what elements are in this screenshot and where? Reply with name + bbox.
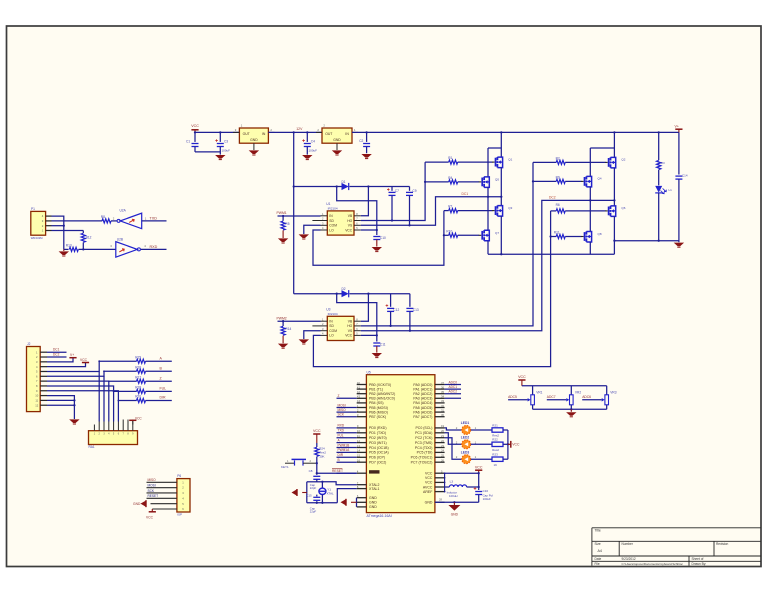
inverter U2B	[116, 242, 138, 258]
inductor L3	[445, 486, 450, 488]
power symbol VCC	[518, 379, 525, 381]
resistor R6	[551, 210, 557, 212]
svg-text:VR1: VR1	[536, 390, 542, 394]
power symbol VCC	[152, 508, 177, 510]
svg-text:R17: R17	[135, 375, 141, 379]
svg-text:C2: C2	[359, 139, 363, 143]
wire HO	[361, 162, 533, 326]
wire	[47, 380, 137, 382]
svg-text:9/23/2012: 9/23/2012	[622, 557, 636, 561]
wire	[350, 293, 410, 295]
svg-text:HO: HO	[347, 219, 352, 223]
wire	[445, 397, 461, 399]
svg-text:XTAL1: XTAL1	[369, 487, 379, 491]
svg-text:R15: R15	[135, 355, 141, 359]
svg-text:41: 41	[357, 385, 361, 389]
svg-text:11: 11	[35, 399, 38, 403]
wire	[278, 320, 321, 322]
svg-text:PC0 (SCL): PC0 (SCL)	[415, 426, 432, 430]
svg-text:PA1 (ADC1): PA1 (ADC1)	[413, 387, 432, 391]
svg-text:PA0 (ADC0): PA0 (ADC0)	[413, 383, 432, 387]
svg-text:24: 24	[441, 449, 445, 453]
diode D1	[293, 185, 295, 187]
gate driver U3 IR2104	[327, 316, 354, 340]
resistor R5	[282, 216, 284, 221]
svg-text:R18: R18	[135, 386, 141, 390]
svg-text:PD0 (RXD): PD0 (RXD)	[369, 426, 387, 430]
svg-text:12: 12	[35, 403, 38, 407]
svg-text:PB1 (T1): PB1 (T1)	[369, 387, 383, 391]
ground	[299, 339, 309, 343]
svg-text:PC3 (TMS): PC3 (TMS)	[415, 441, 433, 445]
svg-text:PWM1: PWM1	[277, 211, 287, 215]
wire VS / DC1	[361, 197, 502, 226]
connector J2	[27, 347, 41, 412]
svg-text:PA2 (ADC2): PA2 (ADC2)	[413, 392, 432, 396]
power symbol VCC	[191, 129, 198, 131]
wire left bridge column B	[487, 148, 489, 176]
wire	[111, 220, 117, 222]
capacitor C12	[390, 294, 392, 307]
ground arrow	[351, 501, 357, 503]
svg-text:DIR: DIR	[338, 453, 344, 457]
wire MCU gnd bracket	[356, 498, 358, 507]
ground	[361, 154, 371, 158]
resistor R13	[64, 248, 69, 250]
wire	[47, 361, 137, 371]
svg-text:LED2: LED2	[461, 436, 470, 440]
svg-text:U1: U1	[326, 202, 330, 206]
svg-text:SCK: SCK	[148, 489, 155, 493]
svg-text:PD7 (OC2): PD7 (OC2)	[369, 461, 386, 465]
svg-text:40: 40	[357, 381, 361, 385]
wire bracket	[488, 147, 501, 149]
svg-text:C9: C9	[412, 189, 416, 193]
net label ADC2	[445, 393, 461, 395]
svg-text:C7: C7	[395, 189, 399, 193]
svg-text:PB2 (AIN0/INT2): PB2 (AIN0/INT2)	[369, 392, 395, 396]
svg-text:15: 15	[357, 454, 361, 458]
net label MISO	[337, 411, 357, 413]
crystal Y1	[321, 482, 323, 488]
resistor R24 10K	[316, 443, 318, 447]
wire	[146, 370, 172, 372]
svg-text:R13: R13	[66, 244, 72, 248]
svg-text:Z: Z	[338, 394, 340, 398]
svg-text:10K: 10K	[319, 454, 324, 458]
svg-text:IN: IN	[262, 132, 266, 136]
svg-text:21: 21	[441, 434, 445, 438]
svg-text:R11: R11	[554, 231, 560, 235]
wire	[52, 216, 64, 249]
svg-text:VCC: VCC	[191, 124, 199, 128]
svg-text:C1: C1	[186, 140, 190, 144]
resistor R20	[137, 398, 146, 402]
svg-text:PA3 (ADC3): PA3 (ADC3)	[413, 397, 432, 401]
wire	[445, 428, 462, 430]
svg-text:C4: C4	[311, 140, 315, 144]
wire left bridge column A	[500, 131, 502, 133]
resistor R11	[549, 235, 551, 237]
ground	[278, 238, 288, 242]
ground	[63, 249, 65, 251]
wire	[532, 405, 534, 410]
svg-text:KEY1: KEY1	[281, 465, 289, 469]
resistor R23	[492, 457, 503, 461]
svg-text:VR2: VR2	[575, 390, 581, 394]
resistor R16	[137, 369, 146, 373]
wire VS / DC2	[361, 200, 615, 330]
svg-text:Title: Title	[595, 529, 601, 533]
svg-text:PB7 (SCK): PB7 (SCK)	[369, 415, 386, 419]
wire	[658, 193, 660, 241]
transistor Q1	[492, 161, 495, 163]
wire	[570, 386, 572, 395]
svg-text:1K: 1K	[494, 463, 498, 467]
svg-text:FUL: FUL	[160, 387, 167, 391]
wire	[445, 433, 462, 445]
resistor R17	[137, 379, 146, 383]
svg-text:PD3 (INT1): PD3 (INT1)	[369, 441, 387, 445]
power symbol VCC	[132, 420, 134, 424]
svg-text:35: 35	[441, 390, 445, 394]
svg-text:RESET: RESET	[332, 469, 343, 473]
wire	[113, 391, 115, 421]
svg-text:VCC: VCC	[313, 429, 321, 433]
svg-text:U3: U3	[326, 308, 330, 312]
svg-text:R2: R2	[556, 157, 560, 161]
connector P1	[31, 211, 46, 235]
svg-text:26: 26	[441, 459, 445, 463]
svg-text:C11: C11	[380, 342, 386, 346]
svg-text:Q3: Q3	[508, 206, 512, 210]
svg-text:GND: GND	[451, 512, 459, 516]
wire LO route	[313, 211, 550, 367]
svg-text:C10: C10	[380, 236, 386, 240]
svg-text:100uF: 100uF	[222, 148, 231, 152]
svg-text:31: 31	[441, 408, 445, 412]
svg-text:IN: IN	[345, 132, 349, 136]
svg-text:C15: C15	[306, 493, 312, 497]
power symbol VCC	[475, 469, 482, 471]
svg-text:ADC5: ADC5	[508, 395, 517, 399]
net label ADC6	[582, 399, 602, 401]
net label MOSI	[147, 487, 177, 489]
svg-text:PA5 (ADC5): PA5 (ADC5)	[413, 406, 432, 410]
svg-text:C3: C3	[224, 140, 228, 144]
svg-text:MISO: MISO	[148, 478, 157, 482]
wire	[570, 405, 572, 410]
svg-text:PB6 (MISO): PB6 (MISO)	[369, 410, 388, 414]
svg-text:ADC2: ADC2	[449, 390, 458, 394]
resistor R7	[444, 210, 449, 212]
ground	[674, 243, 684, 247]
svg-text:V+: V+	[70, 353, 74, 357]
transistor Q2	[605, 161, 608, 163]
svg-text:SD: SD	[329, 324, 334, 328]
resistor R14	[282, 321, 284, 326]
svg-text:Date: Date	[595, 557, 602, 561]
svg-text:VCC: VCC	[518, 375, 526, 379]
wire RESET	[317, 463, 357, 473]
svg-text:LO: LO	[329, 334, 334, 338]
resistor R21	[492, 428, 503, 432]
svg-text:SD: SD	[329, 219, 334, 223]
svg-text:PA6 (ADC6): PA6 (ADC6)	[413, 410, 432, 414]
svg-text:22: 22	[441, 439, 445, 443]
voltage regulator IC2 7812	[322, 128, 352, 143]
svg-text:100uF: 100uF	[483, 497, 491, 501]
svg-text:TXD: TXD	[338, 429, 345, 433]
ground GND	[453, 502, 455, 505]
transistor Q4	[581, 180, 584, 182]
transistor Q7	[479, 234, 482, 236]
transistor Q6	[605, 210, 608, 212]
capacitor C13	[409, 294, 411, 307]
capacitor C2	[365, 131, 367, 133]
svg-text:VCC: VCC	[80, 358, 88, 362]
net label RESET	[147, 497, 177, 499]
svg-text:Sheet of: Sheet of	[692, 557, 704, 561]
svg-text:PC7 (TOSC2): PC7 (TOSC2)	[411, 461, 433, 465]
wire to LED branch	[614, 240, 679, 242]
wire bottom rail	[488, 253, 614, 255]
net label RXD	[337, 427, 357, 429]
svg-text:36: 36	[441, 385, 445, 389]
capacitor C4	[306, 131, 308, 133]
svg-text:LED1: LED1	[461, 421, 470, 425]
svg-text:R22: R22	[492, 438, 498, 442]
svg-text:PD1 (TXD): PD1 (TXD)	[369, 431, 386, 435]
svg-text:PWM1B: PWM1B	[338, 443, 350, 447]
wire	[47, 371, 137, 376]
svg-text:25: 25	[441, 454, 445, 458]
ground	[278, 344, 288, 348]
wire	[503, 443, 508, 445]
wire	[146, 390, 172, 392]
net label B	[337, 461, 357, 463]
wire	[471, 429, 492, 431]
svg-text:11: 11	[357, 434, 360, 438]
svg-text:C12: C12	[393, 308, 399, 312]
title block	[592, 527, 761, 529]
net label 12V	[293, 131, 295, 133]
svg-text:43: 43	[357, 395, 361, 399]
net label MISO	[147, 481, 177, 483]
wire	[52, 220, 103, 222]
svg-text:File: File	[595, 562, 600, 566]
wire	[142, 220, 167, 222]
resistor R9	[532, 180, 534, 182]
svg-text:R7: R7	[448, 205, 452, 209]
svg-text:L3: L3	[450, 480, 454, 484]
resistor R15	[137, 359, 146, 363]
svg-text:V+: V+	[675, 124, 679, 128]
svg-text:23: 23	[441, 444, 445, 448]
voltage regulator IC1 7805	[239, 128, 268, 143]
resistor R3	[658, 131, 660, 133]
svg-text:R3: R3	[661, 161, 665, 165]
svg-text:Res2: Res2	[492, 448, 499, 452]
svg-text:10: 10	[35, 394, 38, 398]
svg-text:DC2: DC2	[53, 352, 60, 356]
svg-text:C14: C14	[682, 173, 688, 177]
wire	[47, 386, 137, 391]
svg-text:MOSI: MOSI	[148, 483, 156, 487]
svg-text:C13: C13	[413, 308, 419, 312]
svg-text:MISO: MISO	[338, 408, 347, 412]
ground arrow GND	[302, 492, 307, 494]
svg-text:PC2 (TCK): PC2 (TCK)	[415, 436, 432, 440]
svg-text:20: 20	[441, 429, 445, 433]
wire	[606, 405, 608, 410]
svg-text:GND: GND	[369, 496, 377, 500]
svg-text:Q5: Q5	[495, 177, 499, 181]
wire LO route	[313, 211, 444, 266]
svg-text:GND: GND	[250, 138, 258, 142]
svg-text:Q4: Q4	[598, 177, 602, 181]
wire	[146, 380, 172, 382]
push button KEY1	[285, 462, 295, 464]
svg-text:13: 13	[357, 444, 361, 448]
svg-text:XTAL: XTAL	[327, 492, 334, 496]
svg-text:R12: R12	[86, 236, 92, 240]
transistor Q8	[581, 236, 584, 238]
wire	[195, 131, 239, 133]
capacitor C7	[391, 187, 393, 191]
wire DC2	[47, 356, 67, 358]
resistor R1	[425, 161, 449, 163]
svg-text:19: 19	[441, 424, 445, 428]
wire	[52, 225, 64, 227]
ground arrow GND	[151, 503, 177, 505]
capacitor C10	[376, 230, 378, 235]
net label PWM1A	[337, 451, 357, 453]
wire SD stub	[312, 220, 320, 222]
wire VB	[361, 294, 369, 322]
svg-text:GND: GND	[425, 501, 433, 505]
svg-text:PD5 (OC1A): PD5 (OC1A)	[369, 451, 389, 455]
ground	[69, 419, 79, 423]
svg-text:Drawn By:: Drawn By:	[692, 562, 707, 566]
net label FUL	[337, 437, 357, 439]
capacitor C16	[478, 473, 480, 490]
wire VCC bracket	[444, 473, 446, 491]
wire	[350, 186, 410, 188]
wire	[146, 360, 172, 362]
wire	[507, 430, 509, 459]
svg-text:ADC0: ADC0	[449, 380, 458, 384]
svg-text:PC1 (SDA): PC1 (SDA)	[415, 431, 432, 435]
power symbol VCC	[313, 433, 320, 435]
wire VCC bypass to 12V	[337, 187, 377, 231]
svg-text:Number: Number	[622, 542, 634, 546]
potentiometer VR3	[605, 395, 609, 405]
svg-text:PB3 (AIN1/OC0): PB3 (AIN1/OC0)	[369, 397, 395, 401]
svg-text:HO: HO	[347, 324, 352, 328]
net label ADC1	[445, 388, 461, 390]
wire	[532, 386, 534, 395]
wire	[503, 429, 508, 431]
capacitor C11	[376, 335, 378, 341]
wire to ground	[47, 396, 74, 419]
svg-text:R21: R21	[492, 423, 498, 427]
resistor R8	[102, 219, 111, 223]
svg-text:VCC: VCC	[135, 416, 142, 420]
svg-text:DC1: DC1	[53, 348, 60, 352]
capacitor C1	[194, 132, 196, 142]
svg-text:16: 16	[357, 459, 361, 463]
svg-text:PA4 (ADC4): PA4 (ADC4)	[413, 401, 432, 405]
wire DC1	[47, 351, 67, 353]
svg-text:Revision: Revision	[716, 542, 728, 546]
power symbol VCC	[47, 363, 86, 367]
svg-text:VCC: VCC	[512, 443, 520, 447]
wire	[503, 458, 508, 460]
resistor network RA1	[89, 431, 138, 445]
potentiometer VR1	[531, 395, 535, 405]
net label A	[337, 442, 357, 444]
wire V+ top rail	[352, 131, 679, 133]
svg-text:34: 34	[441, 395, 445, 399]
wire	[307, 502, 338, 504]
connector P6	[177, 479, 190, 512]
svg-text:R1: R1	[448, 156, 452, 160]
net label SCK	[337, 416, 357, 418]
wire HO	[361, 162, 425, 220]
svg-text:VCC: VCC	[345, 334, 353, 338]
svg-text:PB5 (MOSI): PB5 (MOSI)	[369, 406, 388, 410]
svg-text:L1: L1	[669, 188, 673, 192]
wire	[471, 443, 492, 445]
svg-text:44: 44	[357, 399, 361, 403]
svg-text:R5: R5	[285, 222, 289, 226]
wire	[195, 151, 220, 153]
ground	[372, 247, 382, 251]
svg-text:VCC: VCC	[345, 228, 353, 232]
svg-text:OUT: OUT	[325, 132, 332, 136]
wire right bridge column B	[589, 148, 591, 176]
svg-text:VR3: VR3	[610, 390, 616, 394]
LED LED3	[462, 455, 471, 464]
wire	[103, 376, 105, 421]
resistor R10	[443, 234, 445, 236]
svg-text:ADC1: ADC1	[449, 385, 458, 389]
svg-text:33: 33	[441, 399, 445, 403]
wire	[471, 458, 492, 460]
svg-text:LED3: LED3	[461, 450, 470, 454]
svg-text:32: 32	[441, 404, 445, 408]
svg-text:IR2104: IR2104	[328, 207, 338, 211]
ground	[249, 150, 259, 154]
net label ADC0	[445, 384, 461, 386]
svg-text:R16: R16	[135, 365, 141, 369]
wire	[52, 230, 84, 232]
svg-text:R14: R14	[285, 327, 291, 331]
svg-text:VCC: VCC	[425, 472, 433, 476]
svg-text:Q1: Q1	[508, 157, 512, 161]
svg-text:22pF: 22pF	[310, 486, 317, 490]
net label ADC7	[547, 399, 567, 401]
LED LED2	[462, 440, 471, 449]
svg-text:100uH: 100uH	[449, 494, 458, 498]
svg-text:D2: D2	[342, 287, 346, 291]
resistor R12	[82, 231, 84, 234]
net label ADC5	[508, 399, 527, 401]
svg-text:ADC6: ADC6	[582, 395, 591, 399]
wire COM to ground	[304, 331, 321, 339]
svg-text:AVCC: AVCC	[423, 485, 433, 489]
